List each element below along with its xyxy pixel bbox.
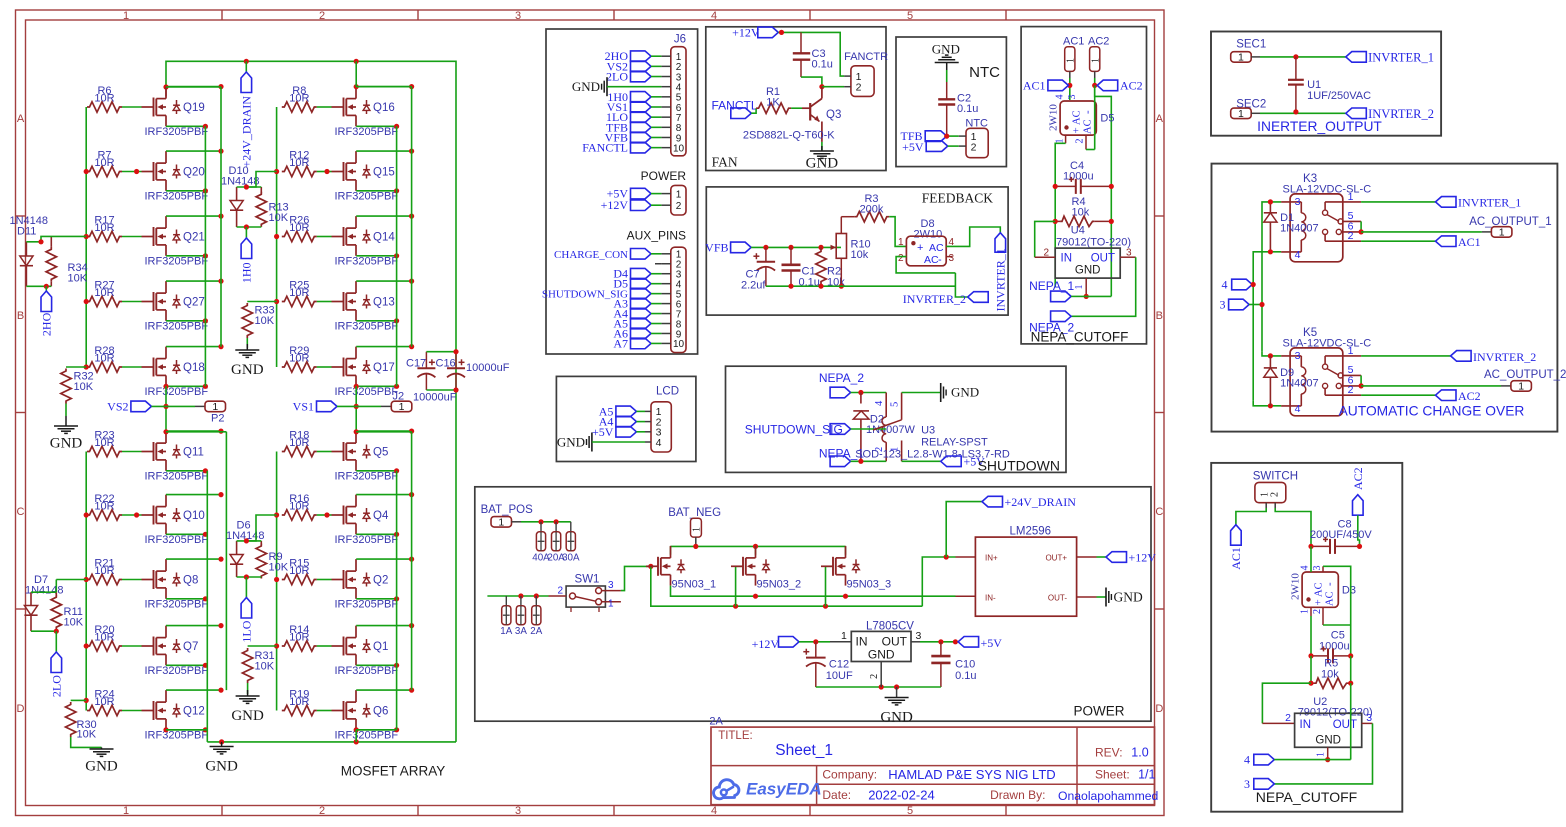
svg-text:AC1: AC1 [1063, 36, 1084, 48]
resistor R9 10K [260, 541, 262, 545]
wire Q18 source to P2 node [163, 384, 168, 389]
gate bus TL [85, 107, 87, 367]
wire VS1 to J2 [337, 405, 356, 407]
wire source Q10 [166, 533, 205, 535]
svg-text:D3: D3 [1342, 585, 1356, 597]
svg-text:Q8: Q8 [183, 574, 198, 586]
transistor Q16 [332, 106, 344, 108]
svg-text:IRF3205PBF: IRF3205PBF [145, 256, 209, 268]
svg-text:INVRTER_2: INVRTER_2 [903, 292, 966, 306]
stub AUX pin 2 [655, 263, 661, 265]
svg-text:3: 3 [916, 630, 922, 642]
wire Q19 drain to rail [163, 84, 168, 89]
svg-text:SWITCH: SWITCH [1253, 471, 1298, 483]
svg-text:AC_OUTPUT_2: AC_OUTPUT_2 [1484, 369, 1566, 381]
svg-text:NTC: NTC [969, 64, 1000, 81]
connector P2 [205, 401, 226, 412]
svg-text:INVRTER_1: INVRTER_1 [994, 248, 1008, 311]
wire D3 pin3 bypass [1322, 566, 1324, 572]
svg-text:AUX_PINS: AUX_PINS [627, 229, 686, 243]
wire AC1 node [1069, 78, 1071, 100]
wire drain Q6 [356, 689, 411, 691]
wire D3 pin2 [1322, 607, 1324, 625]
wire caps bottom [426, 389, 456, 391]
svg-text:Q13: Q13 [373, 296, 395, 308]
ground below R30 [71, 737, 102, 747]
transistor Q4 [332, 514, 344, 516]
wire drain Q7 [166, 625, 221, 627]
svg-text:Q3: Q3 [826, 109, 841, 121]
wire SHUTDOWN_SIG [851, 428, 887, 430]
resistor R19 [282, 705, 317, 715]
net flag A4 LCD [616, 416, 637, 427]
svg-text:AC2: AC2 [1458, 389, 1481, 403]
svg-text:GND: GND [205, 759, 238, 775]
wire D6 R9 bottom [237, 576, 262, 578]
svg-text:A7: A7 [613, 336, 628, 350]
wire source Q15 [356, 190, 396, 192]
resistor R32 10K [66, 366, 86, 368]
svg-text:IRF3205PBF: IRF3205PBF [335, 126, 399, 138]
wire TFB C2 pin1 [947, 135, 959, 137]
svg-text:2SD882L-Q-T60-K: 2SD882L-Q-T60-K [743, 130, 835, 142]
svg-text:10R: 10R [94, 565, 114, 577]
svg-text:SHUTDOWN: SHUTDOWN [978, 458, 1060, 474]
wire gate Q15 [317, 171, 332, 173]
svg-text:AC: AC [924, 254, 939, 266]
svg-text:10R: 10R [289, 287, 309, 299]
svg-text:GND: GND [806, 156, 839, 172]
svg-text:2: 2 [856, 82, 862, 94]
transistor Q13 [332, 301, 344, 303]
svg-text:1: 1 [1518, 381, 1524, 393]
wire Q12 source to bottom rail [163, 727, 168, 732]
EasyEDA logo [714, 780, 739, 799]
wire SEC2 to INVRTER_2 [1260, 112, 1346, 114]
svg-text:IRF3205PBF: IRF3205PBF [145, 665, 209, 677]
svg-text:AC1: AC1 [1023, 79, 1046, 93]
svg-text:IRF3205PBF: IRF3205PBF [335, 386, 399, 398]
svg-text:BAT_NEG: BAT_NEG [668, 507, 721, 519]
svg-text:2HO: 2HO [39, 312, 53, 336]
svg-text:95N03_1: 95N03_1 [672, 579, 717, 591]
resistor R10 10k box [836, 234, 846, 259]
net flag INVRTER_1 ACO [1436, 197, 1457, 208]
wire gate Q2 [317, 579, 332, 581]
wire +12V to FANCTR [778, 32, 844, 76]
bus BL sources [206, 471, 208, 742]
net flag A7 AUX pin 10 [631, 338, 652, 349]
wire D7 R11 top [31, 591, 56, 593]
svg-text:Q19: Q19 [183, 102, 205, 114]
svg-text:LM2596: LM2596 [1010, 526, 1052, 538]
wire source Q27 [166, 320, 205, 322]
svg-text:4: 4 [711, 805, 717, 817]
svg-text:95N03_3: 95N03_3 [847, 579, 892, 591]
resistor R18 [282, 446, 317, 456]
wire lower fuse rail [487, 595, 548, 597]
svg-text:IN: IN [1300, 719, 1312, 731]
svg-text:+12V: +12V [601, 198, 629, 212]
svg-text:+24V_DRAIN: +24V_DRAIN [239, 96, 253, 168]
svg-text:3: 3 [1295, 350, 1301, 362]
svg-text:1N4148: 1N4148 [221, 176, 260, 188]
net flag A6 AUX pin 9 [631, 328, 652, 339]
net flag A5 AUX pin 8 [631, 318, 652, 329]
net flag INVRTER_1 FEEDBACK [995, 233, 1006, 253]
wire gate Q16 [317, 106, 332, 108]
transistor Q6 [332, 710, 344, 712]
svg-text:C: C [17, 506, 25, 518]
wire source rail 95N03 to IN- [671, 586, 956, 597]
net flag 1LO J6 pin 7 [631, 112, 652, 123]
svg-text:1.0: 1.0 [1131, 746, 1148, 760]
wire U2 gnd pin1 [1327, 747, 1329, 759]
wire source Q13 [356, 320, 396, 322]
wire source Q17 [356, 385, 396, 387]
svg-text:AC: AC [1083, 119, 1094, 134]
svg-text:IRF3205PBF: IRF3205PBF [145, 471, 209, 483]
svg-text:AC2: AC2 [1120, 79, 1143, 93]
wire VFB node [751, 246, 841, 248]
net flag +5V LCD [616, 427, 637, 438]
svg-text:Q1: Q1 [373, 641, 388, 653]
wire source Q4 [356, 533, 396, 535]
svg-text:1: 1 [123, 10, 129, 22]
net flag +5V NTC [926, 141, 948, 152]
wire SWITCH pin1 to AC1 [1236, 508, 1266, 525]
svg-text:3: 3 [1244, 777, 1250, 791]
wire top rail +24V_DRAIN [166, 61, 456, 742]
net flag VS2 J6 pin 2 [631, 61, 652, 72]
net flag AC2 top [1097, 80, 1118, 91]
wire +12V to L7805 IN [799, 641, 830, 643]
svg-text:MOSFET ARRAY: MOSFET ARRAY [341, 764, 446, 779]
wire drain Q12 [166, 689, 221, 691]
svg-text:1K: 1K [766, 97, 780, 109]
svg-text:2W10: 2W10 [914, 229, 943, 241]
svg-text:3: 3 [1366, 712, 1372, 724]
wire VS2 to P2 [151, 405, 195, 407]
svg-text:1N4007: 1N4007 [1280, 222, 1319, 234]
fuse F1 40A [540, 522, 542, 532]
wire gnd node to right bus [1086, 295, 1111, 297]
block LCD [556, 376, 696, 461]
transistor Q27 [142, 301, 154, 303]
svg-text:0.1u: 0.1u [955, 670, 976, 682]
svg-text:Q14: Q14 [373, 231, 395, 243]
diode D1 1N4007 [1269, 201, 1271, 213]
wire gate Q1 [317, 645, 332, 647]
block SHUTDOWN [726, 366, 1067, 472]
resistor R23 [87, 446, 122, 456]
wire D8 pin4 to INVRTER_1 [946, 227, 1000, 246]
wire drain Q21 [166, 215, 221, 217]
bus BR sources [396, 471, 398, 730]
wire bottom rail FEEDBACK [766, 285, 956, 287]
wire drain Q18 [166, 346, 221, 348]
svg-text:FEEDBACK: FEEDBACK [922, 191, 994, 206]
svg-text:C10: C10 [955, 659, 975, 671]
capacitor C17 10000uF [425, 352, 427, 369]
wire gate Q21 [122, 236, 142, 238]
svg-text:10R: 10R [94, 500, 114, 512]
svg-text:3A: 3A [515, 626, 527, 637]
wire K5 pin3 from bus [1262, 352, 1281, 356]
net flag 1H0 [245, 227, 247, 238]
svg-text:200k: 200k [860, 204, 884, 216]
svg-text:3: 3 [1220, 298, 1226, 312]
svg-text:IRF3205PBF: IRF3205PBF [145, 191, 209, 203]
wire gate Q14 [317, 236, 332, 238]
svg-text:+12V: +12V [752, 637, 780, 651]
resistor R15 [282, 574, 317, 584]
svg-text:3: 3 [515, 805, 521, 817]
svg-text:2W10: 2W10 [1290, 573, 1302, 600]
wire D8 pin3 to INVRTER_2 [955, 273, 967, 297]
capacitor C12 10UF [815, 642, 817, 658]
svg-text:Q17: Q17 [373, 362, 395, 374]
svg-text:HAMLAD P&E SYS NIG LTD: HAMLAD P&E SYS NIG LTD [888, 767, 1055, 782]
net flag +5V SHUTDOWN [902, 460, 941, 462]
svg-text:10R: 10R [94, 287, 114, 299]
transistor 95N03_3 [821, 565, 833, 567]
wire drain Q16 [356, 86, 411, 88]
net flag NEPA_2 top [1051, 311, 1072, 322]
svg-text:NEPA_CUTOFF: NEPA_CUTOFF [1031, 330, 1129, 345]
resistor R2 10k [820, 247, 822, 250]
wire OUT+ to +12V [1077, 556, 1097, 558]
svg-text:IN+: IN+ [985, 554, 998, 563]
transistor Q18 [142, 366, 154, 368]
svg-text:+: + [1071, 127, 1083, 133]
svg-text:1: 1 [498, 517, 504, 529]
transistor Q19 [142, 106, 154, 108]
svg-text:CHARGE_CON: CHARGE_CON [554, 249, 628, 261]
svg-text:10000uF: 10000uF [466, 362, 510, 374]
block INERTER_OUTPUT [1211, 32, 1441, 136]
svg-text:1: 1 [1348, 345, 1354, 357]
gate bus BL [85, 452, 87, 711]
resistor R29 [282, 362, 317, 372]
transistor Q14 [332, 236, 344, 238]
wire U4 output [1120, 256, 1136, 258]
svg-text:IRF3205PBF: IRF3205PBF [335, 665, 399, 677]
svg-text:10R: 10R [94, 696, 114, 708]
bottom rail GND [207, 741, 456, 743]
svg-text:GND: GND [231, 362, 264, 378]
connector J2 [391, 401, 412, 412]
svg-text:BAT_POS: BAT_POS [481, 504, 534, 516]
svg-text:GND: GND [572, 79, 600, 94]
wire D5 pin2 [1085, 135, 1087, 149]
wire L7805 OUT to +5V [911, 641, 920, 643]
wire K3 pin5 jog [1360, 221, 1362, 232]
svg-text:LCD: LCD [656, 386, 679, 398]
ground below R32 [65, 404, 67, 417]
bus TL drains [220, 87, 222, 347]
svg-text:Company:: Company: [822, 768, 877, 782]
wire D11 R34 bottom [26, 285, 51, 287]
svg-text:D11: D11 [17, 226, 36, 238]
resistor R1 1K [756, 103, 791, 113]
wire K5 pin1 to INVRTER_2 [1361, 355, 1451, 357]
svg-text:5: 5 [890, 402, 901, 407]
wire D10 R13 bottom [237, 226, 262, 228]
net flag A5 LCD [616, 406, 637, 417]
svg-text:4: 4 [711, 10, 717, 22]
wire +24V_DRAIN riser [946, 502, 982, 557]
transistor Q5 [332, 451, 344, 453]
net flag D5 AUX pin 4 [631, 278, 652, 289]
svg-text:GND: GND [50, 436, 83, 452]
svg-text:AC1: AC1 [1229, 547, 1243, 570]
fuse F6 2A [535, 596, 537, 606]
svg-text:-: - [938, 254, 942, 266]
svg-text:200UF/450V: 200UF/450V [1310, 529, 1372, 541]
junction mid dots row2 top [134, 169, 139, 174]
wire gate Q13 [317, 301, 332, 303]
wire SEC1 to INVRTER_1 [1260, 56, 1346, 58]
wire K3 pin2 to AC1 [1361, 240, 1435, 242]
svg-text:1: 1 [212, 401, 218, 413]
svg-text:4: 4 [1222, 278, 1228, 292]
svg-text:VS2: VS2 [107, 400, 128, 414]
svg-text:10R: 10R [94, 631, 114, 643]
svg-text:Onaolapohammed: Onaolapohammed [1058, 789, 1158, 803]
wire drain Q5 [356, 430, 411, 432]
svg-text:AC: AC [929, 242, 944, 254]
svg-text:IRF3205PBF: IRF3205PBF [335, 471, 399, 483]
capacitor C2 0.1u [946, 82, 948, 99]
svg-text:D5: D5 [1100, 113, 1114, 125]
svg-text:10R: 10R [289, 631, 309, 643]
wire source Q11 [166, 470, 205, 472]
resistor R25 [282, 296, 317, 306]
wire SW1 to gate node [621, 566, 651, 590]
svg-text:GND: GND [85, 759, 118, 775]
wire Q11 drain feed [166, 431, 226, 433]
svg-text:Q12: Q12 [183, 705, 205, 717]
svg-text:Q18: Q18 [183, 362, 205, 374]
wire gate Q11 [122, 451, 142, 453]
svg-text:SHUTDOWN_SIG: SHUTDOWN_SIG [745, 423, 843, 437]
capacitor U1 1UF/250VAC [1295, 57, 1297, 80]
svg-text:1: 1 [1499, 227, 1505, 239]
wire R5 to U2 input [1262, 683, 1311, 723]
svg-text:5: 5 [907, 805, 913, 817]
wire FANCTL to R1 [751, 108, 756, 113]
svg-text:10R: 10R [289, 500, 309, 512]
diode D9 1N4007 [1269, 356, 1271, 368]
svg-text:GND: GND [231, 708, 264, 724]
junction mid dots row2 bottom [134, 512, 139, 517]
svg-text:10R: 10R [94, 437, 114, 449]
svg-text:10R: 10R [289, 92, 309, 104]
wire D5 pin1 to left bus [1065, 135, 1067, 143]
svg-text:2: 2 [869, 674, 880, 679]
wire gate Q10 [122, 514, 142, 516]
wire R3 to D8 pin1 [889, 217, 906, 247]
svg-text:GND: GND [557, 435, 585, 450]
wire drain rail 95N03 [671, 545, 846, 547]
svg-text:+5V: +5V [981, 636, 1003, 650]
svg-text:IRF3205PBF: IRF3205PBF [335, 599, 399, 611]
block AUTOMATIC CHANGE OVER [1212, 164, 1558, 432]
svg-text:IRF3205PBF: IRF3205PBF [145, 386, 209, 398]
svg-text:VS1: VS1 [293, 400, 314, 414]
svg-text:VFB: VFB [705, 241, 728, 255]
svg-text:+24V_DRAIN: +24V_DRAIN [1005, 495, 1077, 509]
svg-text:GND: GND [951, 385, 979, 400]
svg-text:C12: C12 [829, 659, 849, 671]
resistor R26 [282, 231, 317, 241]
svg-text:2: 2 [319, 805, 325, 817]
svg-text:IN: IN [1061, 253, 1073, 265]
svg-text:10K: 10K [68, 273, 88, 285]
resistor R27 [87, 296, 122, 306]
wire D3 pin1 to C5 [1310, 607, 1312, 616]
block NEPA_CUTOFF bottom [1211, 463, 1402, 812]
svg-text:C: C [1155, 506, 1163, 518]
net flag +5V POWER [631, 188, 652, 199]
svg-text:REV:: REV: [1095, 746, 1123, 760]
svg-text:INVRTER_1: INVRTER_1 [1458, 196, 1521, 210]
wire R10 top to R3 [840, 217, 842, 234]
wire Q6 source to rail [354, 727, 359, 732]
net flag 2HO [45, 286, 47, 291]
resistor R3 200k [854, 212, 889, 222]
wire D6 R9 top [237, 540, 262, 542]
wire gate Q20 [122, 171, 142, 173]
net flag AC1 bottom [1231, 525, 1242, 546]
net flag AC2 ACO [1436, 390, 1457, 401]
resistor R13 10K [260, 187, 262, 194]
wire drain Q11 [166, 430, 221, 432]
wire gate Q18 [122, 366, 142, 368]
bus BR drains [411, 432, 413, 690]
wire K5 pin2 to AC2 [1361, 394, 1435, 396]
net flag 2LO [55, 631, 57, 652]
wire source Q21 [166, 255, 205, 257]
svg-text:10k: 10k [1321, 669, 1339, 681]
wire source Q14 [356, 255, 396, 257]
svg-text:Q2: Q2 [373, 574, 388, 586]
svg-text:4: 4 [874, 400, 885, 406]
net flag SHUTDOWN_SIG AUX pin 5 [631, 288, 652, 299]
svg-text:79012(TO-220): 79012(TO-220) [1056, 237, 1131, 249]
svg-text:J6: J6 [674, 34, 686, 46]
resistor R30 10K [71, 699, 87, 701]
wire gate Q7 [122, 645, 142, 647]
svg-text:IRF3205PBF: IRF3205PBF [145, 126, 209, 138]
svg-text:10K: 10K [255, 661, 275, 673]
wire D10 R13 top [237, 186, 262, 188]
svg-text:Q16: Q16 [373, 102, 395, 114]
svg-text:Date:: Date: [822, 788, 851, 802]
svg-text:POWER: POWER [641, 169, 687, 183]
wire D11 R34 top [26, 236, 86, 241]
svg-text:10R: 10R [289, 696, 309, 708]
net flag INVRTER_2 output [1346, 108, 1367, 119]
wire drain Q20 [166, 150, 221, 152]
svg-text:10UF: 10UF [826, 670, 853, 682]
svg-text:IN-: IN- [985, 594, 996, 603]
svg-text:SEC1: SEC1 [1236, 39, 1266, 51]
wire source Q8 [166, 598, 205, 600]
wire Q16 drain riser [354, 84, 359, 89]
svg-text:3: 3 [1312, 566, 1323, 571]
